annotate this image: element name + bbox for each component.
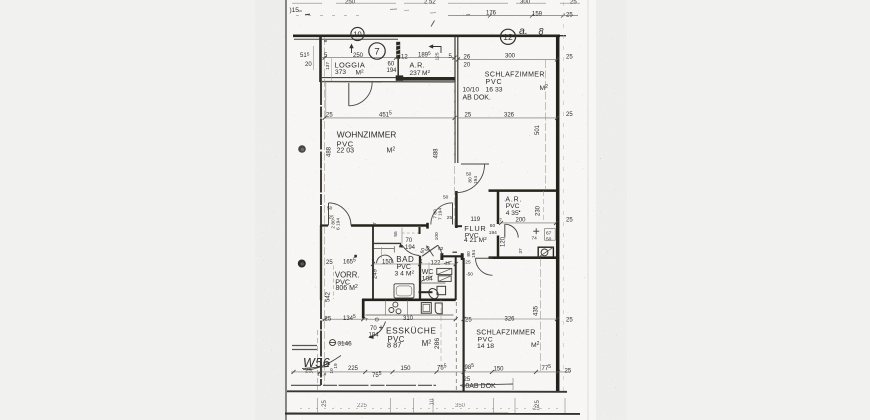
punch hole top [298, 145, 306, 153]
extension line vorr [333, 266, 335, 300]
small vertical ticks bottom faint row [318, 398, 566, 413]
svg-text:300: 300 [520, 0, 531, 6]
wc diagonal door leaf [422, 245, 438, 256]
svg-text:BAD: BAD [396, 255, 414, 264]
svg-text:50: 50 [466, 172, 472, 178]
flur top wall to A.R. right [489, 189, 558, 192]
bad/wc wall vertical [419, 256, 421, 300]
wc radiator bar [419, 291, 433, 293]
right page edge faint [587, 0, 589, 420]
svg-text:25: 25 [570, 0, 577, 6]
svg-text:10: 10 [353, 30, 361, 39]
wc washbasin lower hatched [438, 276, 451, 282]
svg-text:806 M2: 806 M2 [336, 284, 358, 292]
dim line loggia width [322, 57, 396, 59]
svg-text:326: 326 [504, 112, 515, 118]
svg-text:A.R.: A.R. [410, 61, 426, 70]
svg-text:194: 194 [473, 176, 479, 184]
svg-text:488: 488 [327, 146, 333, 157]
svg-text:25: 25 [566, 318, 573, 324]
outer wall top [293, 34, 560, 37]
kitchen fridge corner shape [435, 303, 442, 314]
svg-text:122: 122 [431, 261, 442, 267]
survey point circle 3146 [330, 340, 336, 346]
bad/wc wall top stub [418, 227, 420, 234]
wohnzimmer bottom wall main [351, 224, 428, 227]
svg-text:250: 250 [353, 53, 364, 59]
bad top wall segment [373, 242, 401, 244]
A.R. right room left wall upper [497, 190, 500, 224]
svg-text:237M2: 237M2 [410, 69, 431, 77]
door arc loggia-wohnzimmer [349, 83, 372, 106]
svg-text:25: 25 [566, 55, 573, 61]
wall A.R.top / Schlafzimmer double thin [454, 37, 456, 163]
svg-text:WOHNZIMMER: WOHNZIMMER [337, 130, 397, 140]
svg-text:25: 25 [325, 316, 332, 322]
svg-text:14 18: 14 18 [477, 343, 494, 350]
dim line kitchen row [322, 318, 456, 320]
loggia divider lower thin [397, 59, 399, 76]
svg-text:7 194: 7 194 [437, 208, 443, 220]
svg-text:350: 350 [455, 403, 466, 409]
A.R. top room floor slab thick [396, 77, 455, 81]
kitchen stove [421, 303, 431, 314]
dim line A.R. right 200 [501, 222, 556, 224]
svg-text:60: 60 [490, 223, 496, 229]
wc toilet bowl [427, 287, 440, 301]
punch hole bottom [298, 260, 306, 268]
svg-text:SCHLAFZIMMER: SCHLAFZIMMER [476, 329, 535, 336]
circled number 10 [351, 27, 364, 40]
svg-text:194: 194 [405, 245, 416, 251]
door arc bad [402, 245, 419, 256]
svg-text:25: 25 [326, 112, 333, 118]
svg-text:)15: )15 [290, 7, 300, 14]
svg-text:25: 25 [566, 112, 573, 118]
wall stub at flur junction [455, 225, 462, 227]
dim ticks top row2 [488, 14, 492, 18]
dim line schlafzimmer top width 300 [458, 58, 557, 60]
svg-text:50: 50 [546, 237, 552, 243]
A.R. right bottom wall [489, 256, 558, 259]
dim line bad/wc row [373, 263, 456, 265]
svg-text:≈0AB DOK: ≈0AB DOK [462, 383, 497, 390]
door arc schlafzimmer bottom [476, 258, 493, 275]
svg-text:8: 8 [323, 39, 329, 42]
svg-text:25: 25 [566, 13, 573, 19]
svg-text:-50: -50 [466, 272, 473, 278]
vorr/bad wall vertical [372, 227, 374, 301]
svg-text:25: 25 [565, 368, 572, 374]
svg-text:AB DOK.: AB DOK. [463, 95, 491, 102]
svg-text:SCHLAFZIMMER: SCHLAFZIMMER [485, 72, 545, 79]
svg-text:47: 47 [497, 218, 503, 224]
bottom wall line upper [291, 384, 436, 386]
svg-text:25: 25 [322, 400, 328, 407]
svg-text:80: 80 [468, 177, 474, 183]
svg-text:150: 150 [401, 366, 412, 372]
door leaf flur door [452, 203, 454, 225]
dim line schlafzimmer bottom 326 row [464, 318, 557, 320]
svg-text:125: 125 [435, 52, 441, 60]
wohnzimmer bottom wall left stub [320, 224, 328, 226]
svg-text:4 35▪: 4 35▪ [506, 209, 521, 217]
svg-text:12: 12 [503, 32, 513, 42]
kitchen/bath separating wall [362, 298, 456, 301]
svg-text:25: 25 [566, 218, 573, 224]
svg-text:25: 25 [326, 260, 333, 266]
svg-text:200: 200 [516, 218, 527, 224]
svg-text:19: 19 [333, 363, 339, 369]
svg-text:119: 119 [471, 217, 481, 223]
svg-text:82: 82 [438, 246, 444, 252]
outer wall right [556, 35, 560, 392]
svg-text:249: 249 [373, 268, 379, 279]
svg-text:7: 7 [372, 259, 375, 265]
door arc flur door [431, 203, 453, 225]
dim line bottom faint row [300, 408, 560, 410]
svg-text:100: 100 [434, 232, 440, 240]
door leaf vorraum door [328, 203, 330, 226]
vertical dim line kitchen 286 [440, 300, 442, 371]
vorr/kitchen wall vertical [362, 299, 365, 319]
dim line 55 vertical [401, 228, 403, 244]
svg-text:501: 501 [535, 124, 541, 135]
top wall tick extension right [560, 35, 566, 37]
outer wall left [319, 35, 322, 82]
A.R. corner arrow [431, 47, 442, 54]
svg-text:150: 150 [494, 366, 505, 372]
svg-text:435: 435 [534, 305, 540, 316]
wall Wohnzimmer/Flur vertical thick [455, 191, 458, 228]
door arc vorraum door [329, 203, 352, 226]
svg-text:35: 35 [325, 361, 331, 367]
door leaf loggia-wohnzimmer [348, 83, 350, 106]
svg-text:70: 70 [370, 326, 377, 332]
svg-text:7: 7 [374, 46, 379, 57]
bottom page rule dark [285, 413, 580, 415]
kitchen sink circle 2 [389, 308, 394, 313]
schlafzimmer bottom left wall [463, 258, 465, 392]
vertical dim line wohnzimmer right [454, 82, 456, 225]
svg-text:3146: 3146 [338, 340, 353, 347]
A.R. right corner shaft hatched box [538, 247, 553, 257]
svg-text:25: 25 [465, 317, 472, 323]
svg-text:16 33: 16 33 [486, 87, 503, 94]
page fold edge line [285, 0, 287, 420]
bad interior dim line [374, 247, 395, 249]
svg-text:194: 194 [387, 68, 398, 74]
svg-text:7: 7 [365, 317, 368, 323]
vertical dim line left interior [324, 37, 326, 225]
svg-text:7: 7 [420, 258, 423, 264]
svg-text:5,: 5, [449, 54, 454, 60]
svg-text:225: 225 [357, 403, 368, 409]
entry threshold tick [453, 251, 458, 253]
vertical dim line schlafzimmer-bottom 435 [540, 259, 542, 372]
svg-text:20: 20 [305, 62, 312, 68]
svg-text:19,4: 19,4 [317, 372, 327, 378]
scanned paper area [286, 0, 596, 420]
svg-text:8: 8 [539, 27, 544, 37]
circled number 7 [369, 43, 385, 59]
svg-text:67: 67 [546, 231, 552, 237]
svg-text:120: 120 [501, 236, 507, 247]
vertical dim line schlafzimmer 501 [545, 60, 547, 190]
A.R. right room left wall lower [497, 236, 500, 259]
svg-text:25: 25 [465, 112, 472, 118]
svg-text:60: 60 [388, 62, 395, 68]
wc toilet cistern [437, 286, 446, 294]
loggia divider foot block [396, 75, 404, 80]
svg-text:300: 300 [505, 54, 516, 60]
svg-text:230: 230 [536, 205, 542, 216]
dim line schlafzimmer 326 row [458, 117, 557, 119]
svg-text:225: 225 [348, 366, 359, 372]
door leaf schlafzimmer bottom [476, 257, 493, 259]
svg-text:2 52: 2 52 [424, 0, 436, 6]
svg-text:20: 20 [464, 63, 471, 69]
stray scan smudges top band [390, 8, 397, 11]
svg-text:22 03: 22 03 [337, 147, 355, 154]
svg-text:4 21 M2: 4 21 M2 [464, 236, 487, 244]
vertical dim line right margin [563, 2, 565, 394]
svg-text:a.: a. [519, 25, 528, 37]
dim line bottom overall row [291, 371, 570, 373]
svg-text:194: 194 [471, 250, 477, 258]
svg-text:7: 7 [372, 222, 378, 225]
svg-text:250: 250 [345, 0, 356, 6]
dim line top partial row1 [292, 2, 580, 4]
svg-text:50: 50 [327, 206, 333, 212]
svg-text:50: 50 [443, 194, 449, 200]
vertical dim line loggia 137 [331, 58, 333, 81]
svg-text:ESSKÜCHE: ESSKÜCHE [386, 325, 436, 335]
dim line top row2 [448, 15, 578, 17]
svg-text:176: 176 [486, 11, 497, 17]
door leaf A.R. right [504, 224, 506, 237]
svg-text:542: 542 [326, 291, 332, 302]
wc shelf line [421, 282, 446, 284]
svg-text:326: 326 [505, 317, 516, 323]
wc right wall [455, 257, 457, 300]
plus mark A.R. [535, 228, 537, 234]
dim line A.R. top width [400, 57, 454, 59]
67/50 label box [545, 229, 556, 241]
loggia up arrow [351, 46, 353, 54]
vertical dim line left margin bottom [317, 330, 319, 392]
dashed wall projection kitchen right [455, 302, 457, 390]
bottom wall line lower [287, 390, 567, 393]
svg-text:194: 194 [369, 333, 380, 339]
svg-text:194: 194 [489, 230, 497, 236]
svg-text:150: 150 [382, 260, 393, 266]
kitchen sink circle 1 [393, 302, 398, 307]
tick marks main rows [292, 56, 561, 374]
svg-text:6 194: 6 194 [335, 218, 341, 230]
svg-text:25,: 25, [305, 369, 314, 375]
kitchen counter bottom line [366, 314, 454, 316]
svg-text:10: 10 [430, 398, 436, 405]
svg-text:70: 70 [406, 238, 413, 244]
svg-text:55: 55 [393, 231, 399, 237]
svg-text:488: 488 [434, 148, 440, 159]
door arc Schlafzimmer top [457, 165, 485, 193]
svg-text:10/10: 10/10 [463, 87, 480, 94]
kitchen door arc [371, 322, 386, 338]
margin mark lines left middle [292, 345, 317, 347]
svg-text:286: 286 [434, 338, 441, 350]
svg-text:37: 37 [518, 248, 524, 254]
svg-text:25: 25 [465, 260, 471, 266]
entry door panel dumbbell [441, 255, 463, 257]
kitchen sink circle 3 [396, 309, 401, 314]
door arc A.R. right [505, 224, 518, 237]
kitchen counter divider lines [385, 300, 387, 315]
ink blot [354, 255, 357, 258]
svg-text:159: 159 [532, 12, 543, 18]
wohnzimmer bottom wall end post [426, 223, 429, 229]
vorr door half arc [377, 255, 393, 263]
vertical dim line AR 230 [543, 191, 545, 222]
svg-text:PVC: PVC [486, 79, 503, 86]
svg-text:26: 26 [464, 55, 471, 61]
bathtub [394, 284, 414, 298]
loggia window sill line [294, 38, 398, 40]
svg-text:74: 74 [532, 236, 538, 242]
svg-text:373: 373 [335, 69, 346, 76]
loggia bottom wall double line [321, 77, 396, 79]
door leaf Schlafzimmer top [461, 163, 489, 165]
svg-text:8 87: 8 87 [387, 340, 401, 349]
dim line wohnzimmer width 451.5 [325, 117, 455, 119]
svg-text:310: 310 [403, 316, 414, 322]
svg-text:25: 25 [447, 215, 453, 221]
circled number 12 [500, 29, 515, 44]
svg-text:137: 137 [325, 62, 331, 70]
loggia divider mullion hatched bar [396, 42, 400, 59]
vertical dim line top-left 515 [313, 46, 315, 70]
wc washbasin upper hatched [437, 268, 452, 274]
svg-text:25: 25 [533, 406, 540, 412]
svg-text:12: 12 [401, 55, 408, 61]
